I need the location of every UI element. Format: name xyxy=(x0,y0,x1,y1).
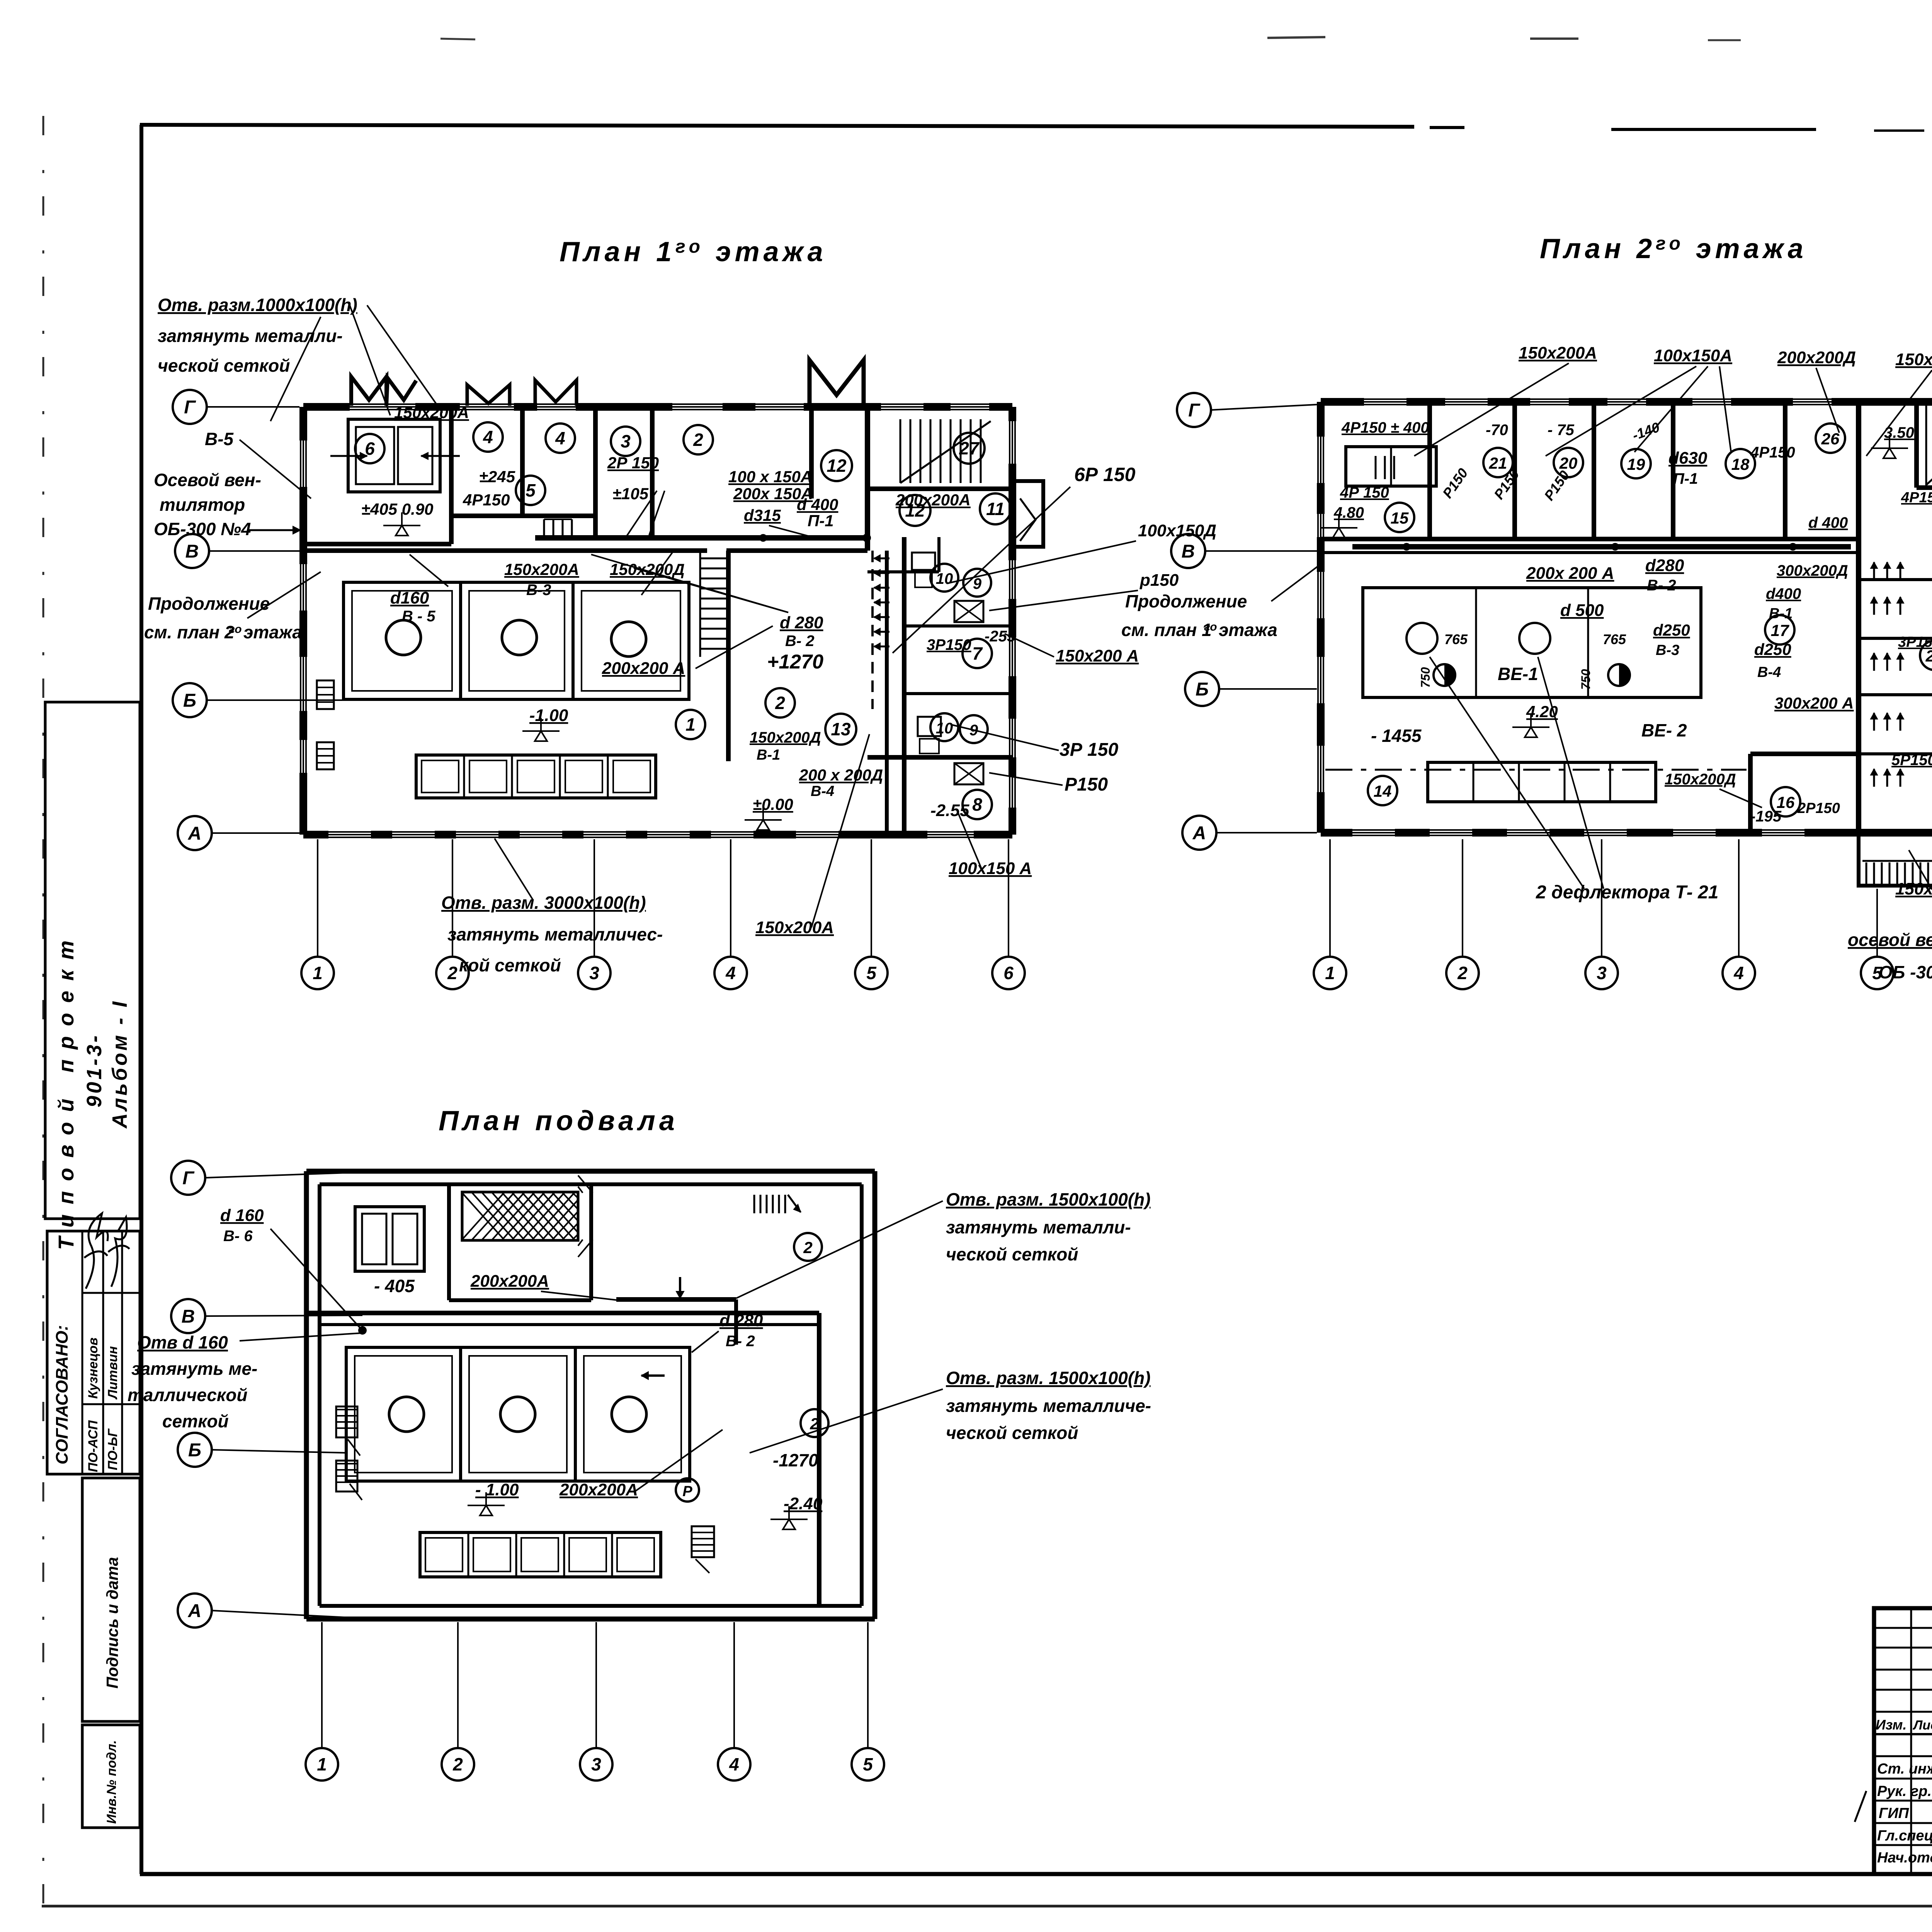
basement hatched pit xyxy=(462,1192,578,1240)
svg-text:Г: Г xyxy=(184,397,196,418)
basement axis circle A xyxy=(178,1594,212,1628)
svg-text:150х200А: 150х200А xyxy=(755,918,834,937)
svg-text:±245: ±245 xyxy=(479,468,515,486)
plan1 axis circle A xyxy=(178,816,212,850)
svg-text:4Р150 ± 400: 4Р150 ± 400 xyxy=(1341,419,1429,436)
svg-text:d 400: d 400 xyxy=(1808,514,1848,531)
plan1 corridor walls right xyxy=(867,570,939,573)
svg-text:- 75: - 75 xyxy=(1548,422,1575,439)
plan1 stair wall x1885 xyxy=(726,551,731,761)
svg-text:100х150А: 100х150А xyxy=(1654,346,1732,365)
svg-text:ОБ -300 N4: ОБ -300 N4 xyxy=(1879,962,1932,982)
svg-text:150х200 А: 150х200 А xyxy=(1056,646,1139,665)
svg-text:5: 5 xyxy=(866,963,877,983)
svg-text:-1.00: -1.00 xyxy=(529,706,568,725)
svg-text:Альбом - I: Альбом - I xyxy=(108,999,131,1129)
svg-text:таллической: таллической xyxy=(128,1385,247,1405)
basement duct 200x200 xyxy=(616,1297,736,1302)
svg-text:d280: d280 xyxy=(1645,556,1684,575)
plan1 tambour bump xyxy=(1012,481,1043,547)
TITLES xyxy=(439,233,1932,1136)
svg-text:А: А xyxy=(188,823,202,844)
svg-text:Б: Б xyxy=(188,1440,201,1461)
svg-text:13: 13 xyxy=(831,719,851,739)
svg-text:200 х 200Д: 200 х 200Д xyxy=(799,766,883,784)
svg-text:осевой вентилятор: осевой вентилятор xyxy=(1848,930,1932,950)
basement window box xyxy=(355,1207,424,1271)
plan1 sanitary fixtures lower xyxy=(918,717,941,736)
svg-text:Отв d 160: Отв d 160 xyxy=(137,1332,228,1352)
svg-text:2: 2 xyxy=(693,430,703,450)
svg-text:ПО-ЬГ: ПО-ЬГ xyxy=(105,1428,120,1470)
PLAN1 xyxy=(173,360,1043,989)
svg-text:В-4: В-4 xyxy=(811,783,834,799)
svg-text:Г: Г xyxy=(1188,400,1201,421)
plan1 outer wall right xyxy=(1009,407,1016,835)
svg-text:тилятор: тилятор xyxy=(160,495,245,515)
plan1 bottom axis circles xyxy=(301,957,334,989)
svg-text:Г: Г xyxy=(182,1168,195,1189)
plan1 zigzag entrance big xyxy=(810,360,864,406)
svg-text:Б: Б xyxy=(1196,679,1209,700)
svg-text:-2.55: -2.55 xyxy=(930,801,969,820)
svg-text:150х200А: 150х200А xyxy=(394,403,469,422)
svg-text:3: 3 xyxy=(589,963,599,983)
plan2 bottom axis circles xyxy=(1314,957,1346,989)
svg-text:Ст. инж.: Ст. инж. xyxy=(1877,1761,1932,1777)
plan1 room6 window xyxy=(348,419,440,492)
svg-text:Нач.отд: Нач.отд xyxy=(1877,1850,1932,1866)
svg-text:4: 4 xyxy=(555,428,565,448)
plan2 stair top right xyxy=(1925,406,1927,486)
plan1 filters row xyxy=(416,755,656,798)
plan1 duct risers xyxy=(543,519,545,537)
plan2 hall inner rect xyxy=(1363,588,1701,697)
basement room circle 2a xyxy=(794,1233,822,1261)
svg-text:см. план 1: см. план 1 xyxy=(1121,620,1212,640)
svg-text:2: 2 xyxy=(1457,963,1468,983)
svg-text:Лист: Лист xyxy=(1912,1718,1932,1733)
svg-text:3: 3 xyxy=(1597,963,1607,983)
svg-text:2: 2 xyxy=(803,1238,812,1257)
svg-text:d250: d250 xyxy=(1653,621,1690,639)
svg-text:10: 10 xyxy=(936,720,953,737)
basement outer wall double left xyxy=(304,1171,309,1619)
svg-text:300х200 А: 300х200 А xyxy=(1774,694,1854,712)
svg-text:750: 750 xyxy=(1579,669,1593,690)
basement axis circle B xyxy=(178,1433,212,1467)
svg-text:4.80: 4.80 xyxy=(1333,504,1364,521)
plan2 outer wall left xyxy=(1317,402,1325,833)
plan1 axis circle G xyxy=(173,390,207,424)
plan1 room number circles xyxy=(355,434,384,463)
svg-text:4: 4 xyxy=(725,963,736,983)
long leaders crossing hall xyxy=(591,554,788,612)
basement axis circle V xyxy=(171,1299,205,1333)
PLAN2 TEXTS xyxy=(1121,344,1932,982)
stamp column lines xyxy=(1910,1608,1912,1874)
plan2 centerline hall xyxy=(1325,769,1747,771)
basement niche walls xyxy=(447,1184,451,1300)
svg-text:В-5: В-5 xyxy=(205,429,234,449)
plan1 outer wall bottom xyxy=(303,831,1012,838)
svg-text:±0.00: ±0.00 xyxy=(753,795,793,813)
plan1 right column divider y1620 xyxy=(904,624,1012,628)
svg-text:-195: -195 xyxy=(1750,808,1782,825)
svg-text:6: 6 xyxy=(1003,963,1014,983)
svg-text:Изм.: Изм. xyxy=(1876,1717,1906,1733)
svg-text:14: 14 xyxy=(1374,782,1392,800)
svg-text:15: 15 xyxy=(1391,509,1409,527)
svg-text:200х200Д: 200х200Д xyxy=(1777,348,1856,367)
svg-text:2: 2 xyxy=(775,693,785,713)
basement tank circle 1 xyxy=(389,1397,424,1432)
svg-text:В: В xyxy=(1182,541,1195,562)
stamp box Tipovoy proekt xyxy=(45,702,140,1219)
inner frame top line xyxy=(140,125,1414,127)
svg-text:6Р 150: 6Р 150 xyxy=(1074,464,1136,485)
basement room circle 2b xyxy=(801,1409,828,1437)
svg-text:12: 12 xyxy=(827,456,847,476)
svg-text:3: 3 xyxy=(621,431,631,451)
plan1 duct arrows wall xyxy=(874,558,889,560)
svg-text:Р: Р xyxy=(682,1483,692,1500)
signature squiggles xyxy=(84,1213,108,1289)
svg-text:В-4: В-4 xyxy=(1757,664,1781,680)
plan2 duct arrow clusters right rooms xyxy=(1873,597,1875,615)
plan1 outer wall top xyxy=(303,403,1012,411)
svg-text:8: 8 xyxy=(972,794,982,815)
svg-text:4Р150: 4Р150 xyxy=(1901,490,1932,506)
svg-text:18: 18 xyxy=(1731,455,1750,473)
svg-text:Рук. гр.: Рук. гр. xyxy=(1877,1783,1932,1799)
plan2 axis circle B xyxy=(1185,672,1219,706)
svg-text:10: 10 xyxy=(936,570,953,587)
basement interior wall V axis xyxy=(306,1311,819,1315)
svg-text:200х200А: 200х200А xyxy=(470,1272,549,1291)
svg-text:d 160: d 160 xyxy=(220,1206,264,1225)
svg-text:3Р150: 3Р150 xyxy=(927,636,971,653)
svg-text:Литвин: Литвин xyxy=(105,1346,120,1400)
svg-text:Отв. разм.1000х100(h): Отв. разм.1000х100(h) xyxy=(158,295,357,315)
plan1 interior wall porch divider xyxy=(520,407,525,516)
svg-text:6: 6 xyxy=(365,439,375,459)
svg-text:d 280: d 280 xyxy=(719,1311,763,1330)
stamp box Podpis i data xyxy=(82,1478,140,1721)
svg-text:2Р150: 2Р150 xyxy=(1797,800,1840,816)
svg-text:СОГЛАСОВАНО:: СОГЛАСОВАНО: xyxy=(53,1325,71,1464)
svg-text:d315: d315 xyxy=(744,506,781,524)
plan1 interior wall x1168 xyxy=(449,407,454,544)
plan1 interior wall room6 bottom xyxy=(303,542,451,546)
svg-text:150х200 А: 150х200 А xyxy=(1895,879,1932,898)
plan1 tanks room xyxy=(344,582,689,699)
plan2 axis circle V xyxy=(1171,534,1205,568)
svg-text:d250: d250 xyxy=(1754,640,1791,658)
inner frame left line xyxy=(139,125,143,1874)
basement filters row xyxy=(420,1532,661,1577)
svg-text:ческой сеткой: ческой сеткой xyxy=(946,1244,1078,1264)
plan1 zigzag porch 4b xyxy=(535,380,577,406)
plan2 right column dividers xyxy=(1859,578,1932,581)
plan1 interior wall x2100 xyxy=(809,407,814,498)
plan2 room number circles xyxy=(1483,448,1513,477)
svg-text:Р150: Р150 xyxy=(1065,774,1108,795)
svg-text:300х200Д: 300х200Д xyxy=(1777,562,1848,579)
svg-text:5: 5 xyxy=(526,480,536,500)
basement axis circle G xyxy=(171,1161,205,1195)
svg-text:Отв. разм. 1500х100(h): Отв. разм. 1500х100(h) xyxy=(946,1368,1151,1388)
svg-text:150х200Д: 150х200Д xyxy=(750,729,821,746)
plan1 right column wall x2340 xyxy=(902,537,906,835)
svg-text:затянуть металличе-: затянуть металличе- xyxy=(946,1396,1151,1416)
svg-text:ВЕ-1: ВЕ-1 xyxy=(1498,664,1538,684)
plan2 axis circle G xyxy=(1177,393,1211,427)
svg-text:765: 765 xyxy=(1603,631,1626,647)
svg-text:- 1455: - 1455 xyxy=(1371,726,1422,746)
svg-text:d630: d630 xyxy=(1668,449,1708,468)
svg-text:1: 1 xyxy=(1325,963,1335,983)
plan1 zigzag porch 4a xyxy=(467,385,510,406)
svg-text:2Р 150: 2Р 150 xyxy=(607,454,659,472)
svg-text:В- 2: В- 2 xyxy=(1647,577,1676,594)
PLAN2 xyxy=(1171,393,1932,989)
svg-text:d160: d160 xyxy=(390,588,429,607)
plan1 tank circle 2 xyxy=(502,620,537,655)
svg-text:750: 750 xyxy=(1418,667,1432,688)
svg-text:Отв. разм. 3000х100(h): Отв. разм. 3000х100(h) xyxy=(441,893,646,913)
plan1 duct vertical dashed xyxy=(871,551,874,709)
svg-text:150х200А: 150х200А xyxy=(504,560,579,578)
plan2 outer wall top xyxy=(1321,398,1932,406)
plan1 room27 wall xyxy=(867,486,1012,491)
basement stairs left wall xyxy=(336,1406,357,1437)
svg-text:d 500: d 500 xyxy=(1560,601,1604,620)
plan1 interior wall x1688 xyxy=(650,407,655,537)
svg-text:см. план 2: см. план 2 xyxy=(144,622,235,642)
plan1 interior wall rooms 3-2 bottom xyxy=(595,536,867,539)
basement tanks room xyxy=(346,1347,690,1481)
svg-text:1: 1 xyxy=(685,714,696,735)
svg-text:Инв.№ подл.: Инв.№ подл. xyxy=(104,1740,119,1824)
basement stair top-right xyxy=(753,1195,755,1213)
svg-text:2 дефлектора Т- 21: 2 дефлектора Т- 21 xyxy=(1536,882,1718,903)
svg-text:ческой сеткой: ческой сеткой xyxy=(946,1423,1078,1443)
svg-text:5: 5 xyxy=(863,1754,873,1774)
plan2 duct main thick xyxy=(1352,544,1851,549)
BASEMENT xyxy=(128,1161,1151,1781)
svg-text:21: 21 xyxy=(1489,454,1507,472)
svg-text:200х 200 А: 200х 200 А xyxy=(1526,564,1614,583)
svg-text:План подвала: План подвала xyxy=(439,1105,679,1136)
plan1 radiator left 2 xyxy=(317,742,334,769)
svg-text:этажа: этажа xyxy=(1219,620,1277,640)
svg-text:4: 4 xyxy=(483,427,493,447)
outer border left dashed xyxy=(43,116,44,1907)
svg-text:затянуть металли-: затянуть металли- xyxy=(946,1217,1131,1237)
plan1 duct main thick xyxy=(535,535,867,541)
plan2 deflector circle 1 xyxy=(1406,623,1437,654)
svg-text:150х200А: 150х200А xyxy=(1519,344,1597,362)
svg-text:Б: Б xyxy=(183,690,196,711)
svg-text:- 1.00: - 1.00 xyxy=(475,1480,519,1499)
svg-text:В- 2: В- 2 xyxy=(785,633,815,650)
svg-text:Продолжение: Продолжение xyxy=(1125,591,1247,611)
svg-text:2: 2 xyxy=(452,1754,463,1774)
svg-text:В-1: В-1 xyxy=(1769,605,1793,622)
plan2 vent shaft 2 xyxy=(1608,664,1630,686)
svg-text:7: 7 xyxy=(972,643,983,663)
plan1 tank circle 3 xyxy=(611,622,646,656)
svg-text:100 х 150А: 100 х 150А xyxy=(728,468,812,486)
svg-text:3.50: 3.50 xyxy=(1884,424,1914,441)
svg-text:4: 4 xyxy=(1733,963,1744,983)
svg-text:4: 4 xyxy=(729,1754,739,1774)
svg-text:1: 1 xyxy=(317,1754,327,1774)
plan1 radiator left 1 xyxy=(317,680,334,709)
basement bottom axis circles xyxy=(306,1748,338,1781)
stamp box SOGLASOVANO xyxy=(47,1231,140,1474)
svg-text:В: В xyxy=(182,1306,195,1327)
basement stairs bottom right xyxy=(692,1526,714,1557)
stamp left rows xyxy=(1874,1627,1932,1629)
svg-text:В-3: В-3 xyxy=(1656,642,1679,658)
svg-text:- 405: - 405 xyxy=(374,1276,415,1296)
plan1 zigzag porch left xyxy=(351,377,386,406)
svg-text:4Р150: 4Р150 xyxy=(463,491,510,509)
svg-text:П-1: П-1 xyxy=(808,512,834,530)
svg-text:Подпись и дата: Подпись и дата xyxy=(103,1557,121,1689)
svg-text:19: 19 xyxy=(1627,455,1645,473)
svg-text:В - 5: В - 5 xyxy=(402,608,435,625)
basement tank circle 3 xyxy=(612,1397,646,1432)
svg-text:Кузнецов: Кузнецов xyxy=(86,1337,100,1399)
basement outer wall double top xyxy=(306,1169,875,1174)
svg-text:27: 27 xyxy=(959,438,980,458)
svg-text:4Р 150: 4Р 150 xyxy=(1340,484,1389,501)
svg-text:Гл.спец.: Гл.спец. xyxy=(1877,1828,1932,1844)
basement hatched pit cross xyxy=(462,1193,505,1240)
plan1 axis circle V xyxy=(175,534,209,568)
svg-text:Осевой вен-: Осевой вен- xyxy=(154,470,261,490)
plan1 stairs hatch lower xyxy=(699,553,701,657)
svg-text:200х200 А: 200х200 А xyxy=(602,659,685,678)
svg-text:сеткой: сеткой xyxy=(162,1411,229,1431)
svg-text:3Р 150: 3Р 150 xyxy=(1060,740,1118,760)
basement room circle R xyxy=(676,1478,699,1502)
plan2 top-left window box xyxy=(1346,447,1436,486)
svg-text:П-1: П-1 xyxy=(1673,470,1698,487)
plan2 axis circle A xyxy=(1182,816,1216,850)
svg-text:го: го xyxy=(1204,621,1217,633)
svg-text:150х 200 А: 150х 200 А xyxy=(1895,350,1932,369)
plan1 interior wall x2245 xyxy=(865,407,870,551)
svg-text:Отв. разм. 1500х100(h): Отв. разм. 1500х100(h) xyxy=(946,1189,1151,1209)
stamp outer box xyxy=(1874,1608,1932,1874)
stamp box Inv N podl xyxy=(82,1725,140,1828)
svg-text:901-3-: 901-3- xyxy=(83,1033,106,1107)
inner frame bottom line xyxy=(140,1872,1932,1876)
plan1 sanitary fixtures upper xyxy=(912,553,935,570)
svg-text:+1270: +1270 xyxy=(767,651,823,673)
svg-text:4Р150: 4Р150 xyxy=(1750,444,1795,461)
svg-text:ВЕ- 2: ВЕ- 2 xyxy=(1641,720,1687,740)
svg-text:d 400: d 400 xyxy=(797,495,838,514)
plan2 outer wall bottom xyxy=(1321,829,1932,837)
plan1 right column divider y1795 xyxy=(904,692,1012,695)
plan1 interior wall x1541 xyxy=(593,407,598,537)
plan1 interior wall porches bottom xyxy=(451,514,595,518)
svg-text:26: 26 xyxy=(1821,430,1840,448)
plan2 corridor wall y1430 xyxy=(1321,551,1859,554)
svg-text:р150: р150 xyxy=(1139,571,1179,590)
plan2 bottom stair bump xyxy=(1859,833,1932,886)
svg-text:ческой сеткой: ческой сеткой xyxy=(158,355,290,376)
basement interior wall x2120 xyxy=(817,1313,821,1606)
plan2 corridor wall y1395 xyxy=(1321,537,1859,541)
svg-text:200х200А: 200х200А xyxy=(559,1480,638,1499)
svg-text:1: 1 xyxy=(313,963,323,983)
plan1 interior wall hall top xyxy=(303,548,707,553)
svg-text:кой сеткой: кой сеткой xyxy=(459,955,561,975)
svg-text:А: А xyxy=(188,1601,202,1621)
svg-text:А: А xyxy=(1192,823,1206,844)
leader lines to top wall xyxy=(350,305,390,415)
plan1 corridor wall x2295 xyxy=(885,551,889,835)
svg-text:-70: -70 xyxy=(1486,422,1508,439)
LEFTMARGIN xyxy=(45,702,140,1828)
svg-text:765: 765 xyxy=(1444,631,1468,647)
plan1 tank circle 1 xyxy=(386,620,421,655)
svg-text:В- 2: В- 2 xyxy=(726,1333,755,1350)
svg-text:3: 3 xyxy=(591,1754,601,1774)
svg-text:3Р150: 3Р150 xyxy=(1898,634,1932,650)
svg-text:В: В xyxy=(185,541,199,562)
svg-text:го: го xyxy=(229,623,242,636)
svg-text:Типовой проект: Типовой проект xyxy=(54,930,78,1250)
basement tank circle 2 xyxy=(500,1397,535,1432)
svg-text:d 280: d 280 xyxy=(780,613,823,632)
svg-text:затянуть ме-: затянуть ме- xyxy=(131,1359,257,1379)
svg-text:2: 2 xyxy=(447,963,457,983)
svg-text:ГИП: ГИП xyxy=(1879,1805,1909,1821)
plan1 stairs room27 xyxy=(900,419,901,483)
PLAN1 TEXTS xyxy=(144,295,1216,975)
svg-text:150х200Д: 150х200Д xyxy=(1665,771,1736,788)
STAMP xyxy=(1855,1608,1932,1874)
svg-text:d400: d400 xyxy=(1766,585,1801,602)
svg-text:5Р150: 5Р150 xyxy=(1891,752,1932,769)
basement outer wall double right xyxy=(872,1171,878,1619)
plan2 top partitions xyxy=(1427,402,1432,539)
svg-text:ОБ-300 №4: ОБ-300 №4 xyxy=(154,519,251,539)
svg-text:этажа: этажа xyxy=(243,622,302,642)
outer border bottom xyxy=(42,1905,1932,1908)
svg-text:затянуть металличес-: затянуть металличес- xyxy=(447,924,663,944)
svg-text:В- 6: В- 6 xyxy=(223,1228,253,1245)
basement outer wall double bottom xyxy=(306,1617,875,1622)
svg-text:ПО-АСП: ПО-АСП xyxy=(86,1420,100,1472)
svg-text:Продолжение: Продолжение xyxy=(148,594,270,614)
svg-text:В-3: В-3 xyxy=(526,582,551,599)
svg-text:В-1: В-1 xyxy=(757,747,780,763)
plan2 vent shaft 1 xyxy=(1434,664,1455,686)
svg-text:±405 0.90: ±405 0.90 xyxy=(361,500,434,518)
plan2 room16 walls xyxy=(1748,754,1753,833)
plan1 right column divider y1960 xyxy=(867,755,1012,760)
svg-text:-1270: -1270 xyxy=(773,1450,818,1470)
svg-text:17: 17 xyxy=(1771,621,1789,639)
